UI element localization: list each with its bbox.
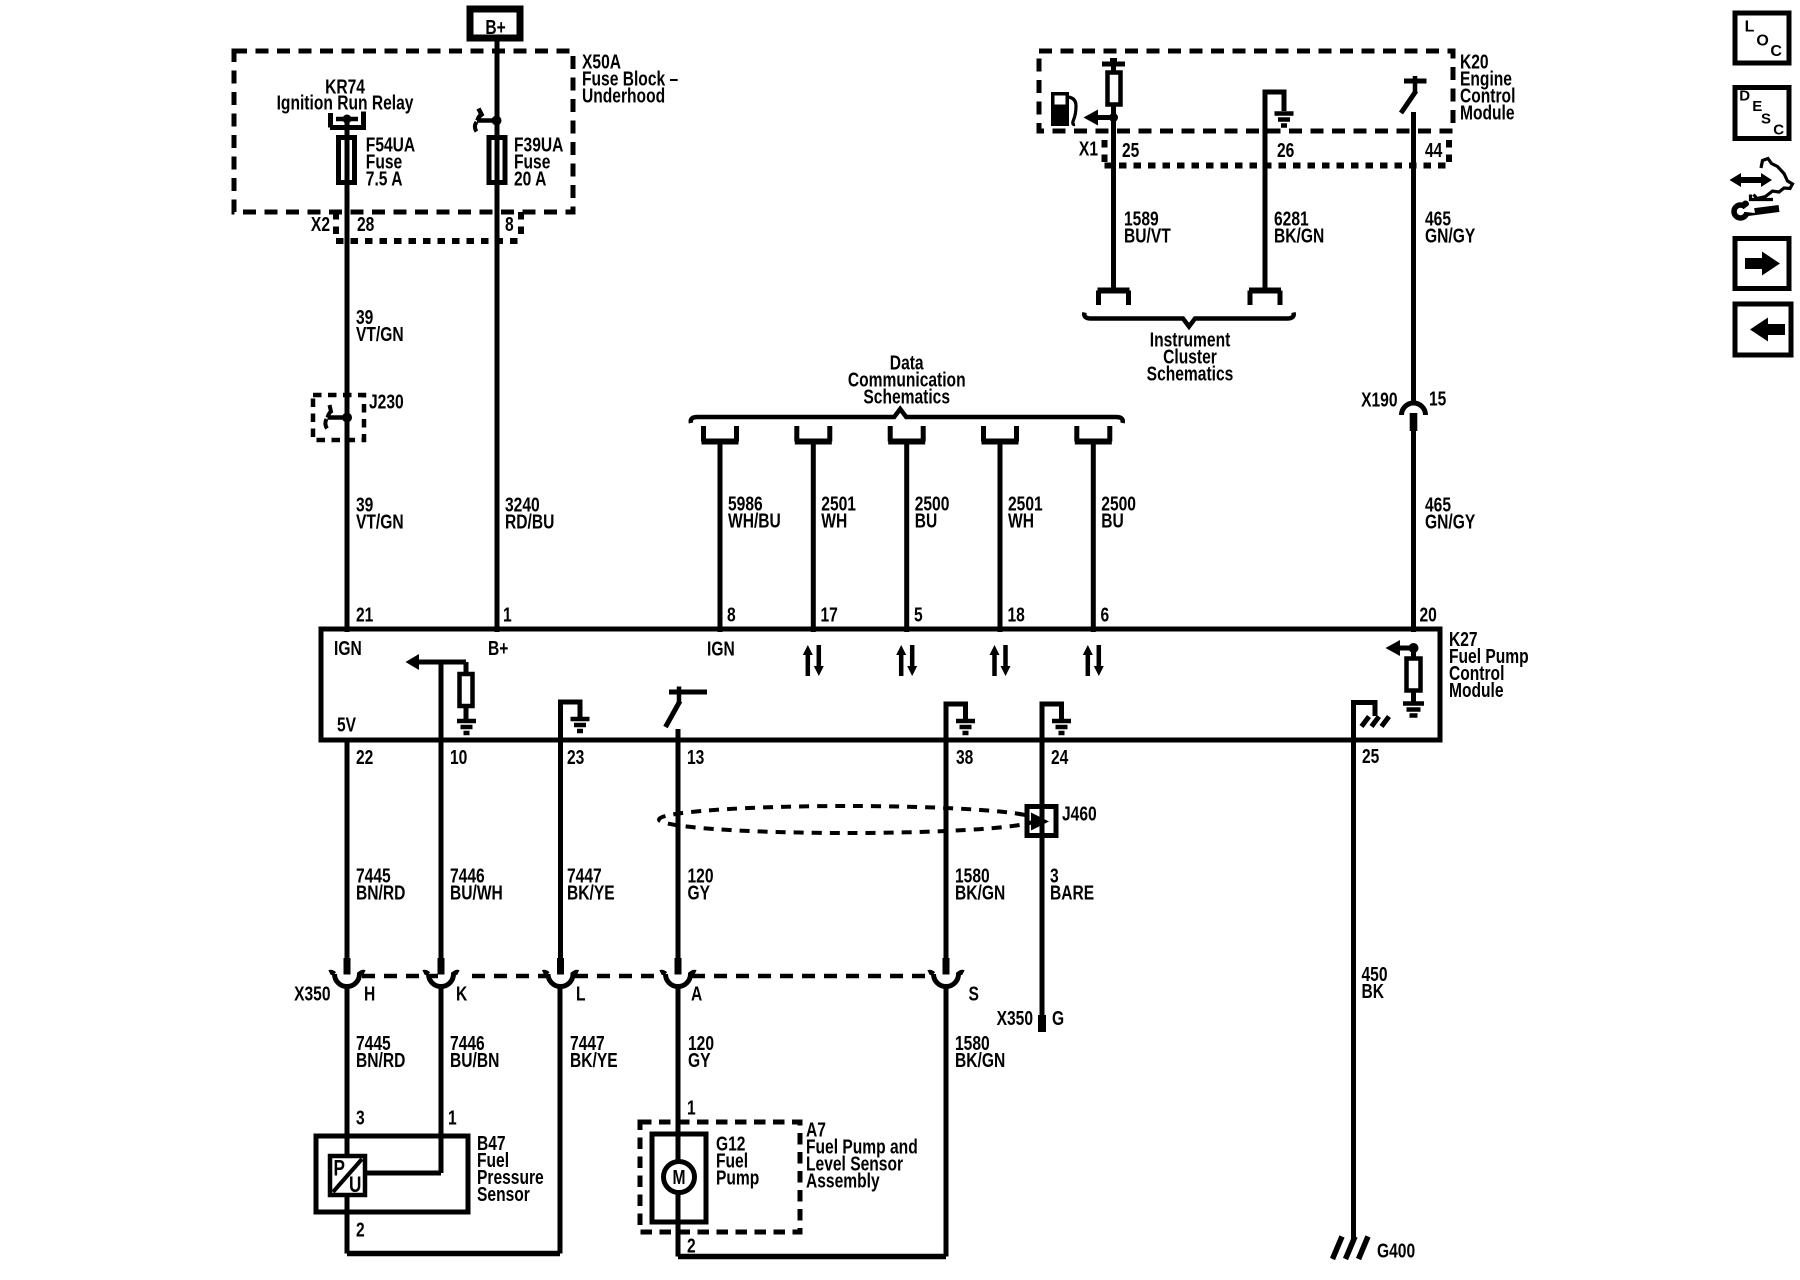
label G12 Fuel Pump — [716, 1133, 745, 1155]
svg-text:7.5 A: 7.5 A — [366, 168, 403, 190]
svg-text:X190: X190 — [1361, 389, 1397, 411]
label 39 VT/GN upper — [356, 306, 373, 328]
label 39 VT/GN lower — [356, 494, 373, 516]
connector X1 strip — [1079, 138, 1098, 160]
svg-text:C: C — [1770, 43, 1782, 60]
svg-text:8: 8 — [727, 604, 736, 626]
wire B+ feed through fuse F39UA to K27 pin 1 — [495, 41, 500, 632]
fuse block X50A dashed outline — [234, 51, 573, 212]
svg-text:BU: BU — [915, 510, 938, 532]
svg-text:U: U — [349, 1173, 361, 1198]
svg-text:17: 17 — [821, 604, 838, 626]
svg-text:L: L — [1745, 19, 1755, 36]
resistor inside K20 at pin 25 — [1102, 62, 1125, 67]
ground G400 — [1346, 1237, 1356, 1260]
off-page terminal to instrument cluster wire 1589 — [1098, 288, 1130, 294]
svg-text:15: 15 — [1429, 388, 1446, 410]
label K27 Fuel Pump Control Module — [1449, 628, 1478, 650]
svg-text:Module: Module — [1449, 679, 1504, 701]
svg-text:25: 25 — [1122, 139, 1139, 161]
wire 7445 BN/RD from pin 22 — [345, 738, 350, 958]
svg-text:J230: J230 — [369, 391, 404, 413]
brace instrument cluster schematics — [1084, 313, 1293, 327]
svg-text:2: 2 — [356, 1219, 365, 1241]
pin 2 of B47 — [356, 1219, 365, 1241]
relay KR74 contact symbol — [330, 112, 366, 128]
svg-text:BK: BK — [1362, 980, 1385, 1002]
svg-text:1: 1 — [687, 1097, 696, 1119]
label Data Communication Schematics — [890, 352, 925, 374]
svg-text:BK/YE: BK/YE — [570, 1049, 618, 1071]
svg-text:GN/GY: GN/GY — [1425, 225, 1475, 247]
svg-text:1: 1 — [448, 1107, 457, 1129]
icon LOC box — [1735, 13, 1789, 63]
fuel pressure sensor B47 box — [316, 1136, 468, 1212]
svg-text:D: D — [1739, 88, 1750, 105]
svg-text:P: P — [334, 1157, 345, 1182]
fuse F54UA — [339, 138, 355, 183]
wire pin 10 inside module — [439, 662, 444, 742]
svg-text:A: A — [691, 983, 702, 1005]
svg-text:BU/BN: BU/BN — [450, 1049, 499, 1071]
pin 26 of X1 — [1277, 139, 1294, 161]
svg-text:38: 38 — [956, 746, 973, 768]
connector X350 terminal A — [675, 958, 682, 975]
svg-text:IGN: IGN — [707, 638, 735, 660]
bidirectional data arrows inside K27 — [806, 653, 811, 676]
svg-text:1: 1 — [503, 604, 512, 626]
svg-text:BU/VT: BU/VT — [1124, 225, 1171, 247]
svg-text:O: O — [1756, 33, 1768, 50]
svg-text:25: 25 — [1362, 745, 1379, 767]
wire 120 GY to G12 pin 1 — [676, 988, 681, 1257]
svg-text:G: G — [1052, 1007, 1064, 1029]
splice J230 — [313, 395, 364, 440]
svg-text:Pump: Pump — [716, 1167, 759, 1189]
svg-text:BK/GN: BK/GN — [955, 882, 1005, 904]
fuse F39UA — [489, 138, 505, 183]
arrow into fuel pump icon — [1092, 115, 1114, 120]
svg-text:5V: 5V — [337, 714, 356, 736]
connector X350 terminal S — [943, 958, 950, 975]
icon forward arrow box — [1735, 239, 1789, 289]
wire 2501 WH to K27 pin 17 — [811, 441, 816, 632]
svg-text:13: 13 — [687, 746, 704, 768]
svg-text:G400: G400 — [1377, 1240, 1415, 1262]
wire 7446 BU/WH from pin 10 — [439, 738, 444, 958]
icon DESC box — [1735, 88, 1789, 139]
svg-text:Schematics: Schematics — [863, 386, 950, 408]
internal chassis ground at pin 25 — [1354, 703, 1376, 743]
svg-text:6: 6 — [1101, 604, 1110, 626]
brace data communication schematics — [691, 409, 1123, 423]
svg-text:2: 2 — [687, 1235, 696, 1257]
fuel pump and level sensor assembly A7 dashed box — [640, 1122, 800, 1232]
svg-text:X1: X1 — [1079, 138, 1098, 160]
off-page terminal data bus wire 2501 WH — [794, 426, 799, 442]
icon part-locator arrow and wrench — [1738, 177, 1764, 183]
wire 2500 BU to K27 pin 6 — [1091, 441, 1096, 632]
K27 bottom pin numbers — [356, 746, 373, 768]
svg-text:L: L — [576, 983, 586, 1005]
fuel pump control module K27 box — [321, 629, 1440, 740]
wire 7447 BK/YE to B47 pin 2 — [558, 988, 563, 1254]
pin 1 of B47 — [448, 1107, 457, 1129]
svg-text:B+: B+ — [485, 16, 505, 38]
relay KR74 label — [325, 76, 365, 98]
wire relay through fuse F54UA to X2 pin 28 — [345, 119, 350, 632]
svg-text:8: 8 — [505, 213, 514, 235]
svg-text:S: S — [969, 983, 979, 1005]
internal ground at pin 24 — [1042, 704, 1062, 742]
svg-text:B+: B+ — [488, 637, 508, 659]
shield twisted-pair dashed ellipse — [659, 806, 1036, 833]
svg-text:H: H — [364, 983, 375, 1005]
pin 1 of G12 — [687, 1097, 696, 1119]
connector X2 strip — [311, 213, 330, 235]
pin 28 of X2 — [357, 213, 374, 235]
connector X350 terminal H — [344, 958, 351, 975]
wire 7445 BN/RD to B47 pin 3 — [345, 988, 350, 1254]
wire 1589 BU/VT — [1111, 118, 1116, 291]
internal switch at pin 13 — [669, 690, 707, 695]
off-page terminal data bus wire 2501 WH — [981, 426, 986, 442]
svg-text:J460: J460 — [1062, 803, 1097, 825]
connector X350 dashed line — [362, 974, 438, 979]
wire B47 pin 2 return loop — [347, 1251, 560, 1257]
svg-text:C: C — [1773, 122, 1784, 139]
pin 3 of B47 — [356, 1107, 365, 1129]
label A7 Fuel Pump and Level Sensor Assembly — [806, 1119, 826, 1141]
label Instrument Cluster Schematics — [1150, 329, 1231, 351]
label 3240 RD/BU — [505, 494, 540, 516]
wire 120 GY from pin 13 — [676, 738, 681, 958]
label K20 Engine Control Module — [1460, 51, 1489, 73]
wire 5986 WH/BU to K27 pin 8 — [718, 441, 723, 632]
svg-text:X2: X2 — [311, 213, 330, 235]
svg-text:28: 28 — [357, 213, 374, 235]
pin 8 of X2 — [505, 213, 514, 235]
off-page terminal data bus wire 2500 BU — [1074, 426, 1079, 442]
label X350 — [294, 983, 330, 1005]
svg-text:VT/GN: VT/GN — [356, 511, 404, 533]
svg-text:21: 21 — [356, 604, 373, 626]
svg-text:Underhood: Underhood — [582, 85, 665, 107]
svg-text:WH: WH — [821, 510, 847, 532]
svg-text:WH: WH — [1008, 510, 1034, 532]
power feed B+ box — [470, 9, 520, 38]
wire 465 GN/GY lower to K27 pin 20 — [1411, 431, 1416, 632]
wire 3 BARE drain from pin 24 — [1040, 738, 1045, 1016]
svg-text:10: 10 — [450, 746, 467, 768]
pin 25 of X1 — [1122, 139, 1139, 161]
svg-text:X350: X350 — [294, 983, 330, 1005]
pin 2 of G12 — [687, 1235, 696, 1257]
wire 7446 BU/BN to B47 pin 1 — [439, 988, 444, 1174]
svg-text:WH/BU: WH/BU — [728, 510, 781, 532]
svg-text:BARE: BARE — [1050, 882, 1094, 904]
relay contact arrow at F39UA — [478, 109, 482, 121]
fuel pump indicator icon in K20 — [1051, 92, 1069, 126]
svg-text:BN/RD: BN/RD — [356, 1049, 405, 1071]
svg-text:M: M — [673, 1166, 686, 1188]
wire 1580 BK/GN from pin 38 — [944, 738, 949, 958]
svg-text:BK/GN: BK/GN — [1274, 225, 1324, 247]
off-page terminal data bus wire 2500 BU — [888, 426, 893, 442]
svg-text:BK/GN: BK/GN — [955, 1049, 1005, 1071]
internal ground at pin 38 — [946, 704, 966, 742]
wire 2501 WH to K27 pin 18 — [998, 441, 1003, 632]
svg-text:26: 26 — [1277, 139, 1294, 161]
svg-text:Module: Module — [1460, 102, 1515, 124]
svg-text:Assembly: Assembly — [806, 1170, 880, 1192]
wire G12 pin 2 return loop — [678, 1254, 946, 1260]
K27 internal labels IGN B+ IGN 5V — [334, 637, 362, 659]
pin 44 of X1 — [1425, 139, 1442, 161]
K27 top pin numbers — [356, 604, 373, 626]
fuel pump G12 box — [652, 1134, 706, 1222]
label B47 Fuel Pressure Sensor — [477, 1132, 506, 1154]
off-page terminal data bus wire 5986 WH/BU — [701, 426, 706, 442]
svg-text:BK/YE: BK/YE — [567, 882, 615, 904]
svg-text:BU: BU — [1101, 510, 1124, 532]
connector X350 terminal L — [557, 958, 564, 975]
svg-text:18: 18 — [1008, 604, 1025, 626]
svg-text:VT/GN: VT/GN — [356, 323, 404, 345]
svg-text:3: 3 — [356, 1107, 365, 1129]
icon back arrow box — [1735, 304, 1791, 355]
svg-text:Sensor: Sensor — [477, 1183, 530, 1205]
wire 6281 BK/GN — [1263, 131, 1268, 290]
svg-text:24: 24 — [1051, 746, 1068, 768]
svg-text:GN/GY: GN/GY — [1425, 511, 1475, 533]
svg-text:BN/RD: BN/RD — [356, 882, 405, 904]
engine control module K20 dashed outline — [1039, 51, 1453, 131]
svg-text:Ignition Run Relay: Ignition Run Relay — [277, 92, 414, 114]
svg-text:BU/WH: BU/WH — [450, 882, 503, 904]
svg-text:22: 22 — [356, 746, 373, 768]
internal driver at pin 20: arrow resistor ground — [1409, 643, 1419, 653]
connector X350 terminal G on drain wire — [997, 1007, 1033, 1029]
wire 465 GN/GY upper — [1411, 112, 1416, 404]
svg-text:K: K — [456, 983, 467, 1005]
connector X350 terminal K — [438, 958, 445, 975]
inline connector X190 pin 15 — [1361, 389, 1397, 411]
svg-text:20: 20 — [1420, 604, 1437, 626]
svg-text:GY: GY — [688, 1049, 711, 1071]
svg-text:S: S — [1761, 111, 1771, 128]
svg-text:44: 44 — [1425, 139, 1442, 161]
switch symbol inside K20 at pin 44 — [1404, 79, 1427, 84]
wire 7447 BK/YE from pin 23 — [558, 738, 563, 958]
label X50A Fuse Block - Underhood — [582, 51, 621, 73]
off-page terminal to instrument cluster wire 6281 — [1249, 288, 1281, 294]
svg-text:Schematics: Schematics — [1147, 363, 1234, 385]
svg-text:GY: GY — [688, 882, 711, 904]
svg-text:23: 23 — [567, 746, 584, 768]
wire 2500 BU to K27 pin 5 — [904, 441, 909, 632]
svg-text:X350: X350 — [997, 1007, 1033, 1029]
fuel pump motor M — [664, 1162, 695, 1193]
svg-text:5: 5 — [914, 604, 923, 626]
splice J460 on drain wire — [1027, 807, 1056, 836]
svg-text:RD/BU: RD/BU — [505, 511, 554, 533]
svg-text:IGN: IGN — [334, 637, 362, 659]
svg-text:20 A: 20 A — [514, 168, 546, 190]
internal sensor supply circuit at pin 10: arrow resistor ground — [413, 660, 466, 665]
ground symbol inside K20 at pin 26 — [1265, 92, 1284, 134]
wire 1580 BK/GN to G12 pin 2 — [944, 988, 949, 1257]
sensor element P/U symbol — [365, 1171, 441, 1176]
internal ground at pin 23 — [561, 702, 581, 742]
wire 450 BK from pin 25 to G400 — [1351, 738, 1356, 1240]
